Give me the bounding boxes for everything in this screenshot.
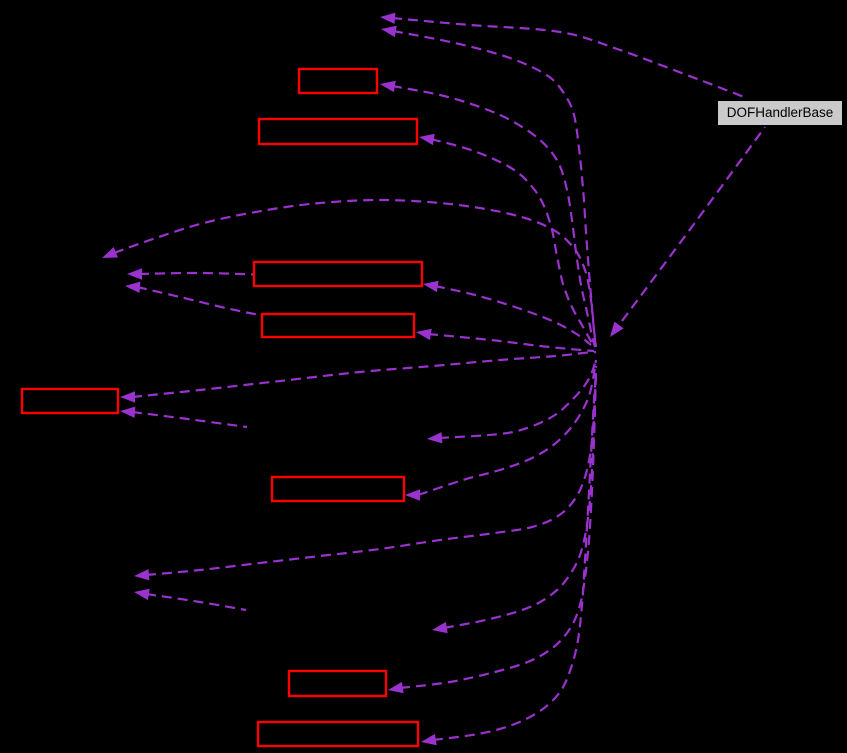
wire edge N [433,376,596,740]
wire edge H [137,287,380,336]
node box node2 [259,119,417,144]
wire edge K [146,594,246,610]
wire edge DHB [622,127,765,321]
wire edge I2 [428,334,594,351]
arrowhead L [432,622,448,633]
node box node8 [258,722,418,746]
node box node1 [299,69,377,93]
arrowhead N [421,734,437,745]
wire edge F [139,273,340,278]
node box node4 [262,314,414,337]
arrowhead I2 [416,329,432,340]
arrowhead R [405,489,420,500]
wire edge B [393,31,596,350]
wire edge D [431,139,592,343]
wire edge G [435,286,591,345]
arrowhead I [427,432,442,443]
wire edge Q [132,412,247,427]
arrowhead J [134,569,149,580]
wire edge L [444,366,596,628]
arrowhead F [127,268,142,279]
arrowhead Q [120,407,135,418]
node DOFHandlerBase [718,101,842,125]
arrowhead D [419,134,435,145]
wire edge C [392,86,595,347]
svg-text:DOFHandlerBase: DOFHandlerBase [727,105,834,120]
node box node5 [22,389,118,413]
wire edge R [418,360,596,495]
arrowhead G [423,281,439,292]
arrowhead M [388,682,404,693]
wire edge P [132,352,596,397]
node box node7 [289,671,386,696]
wire edge I [439,360,596,438]
arrowhead A [380,13,395,24]
node box node3 [254,262,422,286]
wire edge J [146,366,596,575]
arrowhead P [120,391,135,402]
arrowhead H [125,282,140,293]
arrowhead C [380,81,396,92]
wire edge A [392,18,744,97]
node box node6 [272,477,404,501]
arrowhead K [134,589,150,600]
arrowhead E [102,247,118,258]
arrowhead DHB [610,322,624,337]
wire edge M [400,372,596,688]
arrowhead B [381,26,397,37]
wire edge E [114,200,596,347]
